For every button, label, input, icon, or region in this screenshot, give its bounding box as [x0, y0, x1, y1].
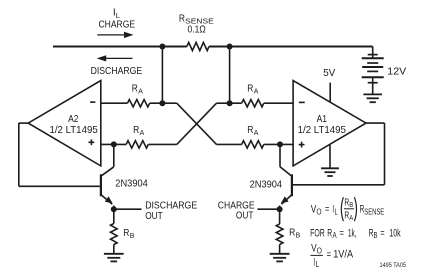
wire: left sense drop	[161, 47, 163, 104]
svg-text:CHARGE: CHARGE	[99, 20, 136, 31]
ground: A1	[321, 168, 339, 176]
svg-text:L: L	[116, 11, 120, 20]
formula FOR RA = 1k, RB = 10k	[310, 227, 401, 240]
resistor RA bottom-left	[126, 141, 148, 148]
wire: A2 output stub	[19, 122, 28, 124]
transistor Q1 2N3904	[101, 167, 114, 204]
svg-text:SENSE: SENSE	[364, 207, 384, 216]
wire: Q2 base lead	[293, 184, 385, 186]
svg-text:R: R	[289, 227, 295, 238]
svg-text:B: B	[296, 231, 301, 240]
wire: bottom-right crossover to RA	[217, 143, 242, 145]
resistor RSENSE	[187, 42, 209, 50]
resistor RA top-right	[242, 100, 264, 107]
svg-text:O: O	[316, 207, 321, 216]
svg-text:OUT: OUT	[236, 210, 254, 221]
pin: A1 V+ 5V	[329, 83, 331, 103]
svg-text:R: R	[247, 84, 253, 95]
svg-text:A2: A2	[68, 114, 79, 125]
svg-text:10k: 10k	[389, 227, 401, 239]
junction: plus line / Q2 collector	[277, 141, 283, 147]
svg-text:A: A	[140, 128, 145, 137]
junction: top rail right node	[227, 44, 233, 50]
wire: A2 plus input lead	[101, 143, 126, 145]
A2 plus sign	[89, 141, 95, 143]
wire: Q2 collector up	[279, 144, 281, 166]
A2 minus sign	[90, 101, 95, 103]
resistor RB left	[111, 224, 118, 245]
svg-text:1k,: 1k,	[348, 227, 357, 239]
wire: top rail right segment (RSENSE to battery)	[209, 46, 373, 48]
svg-text:DISCHARGE: DISCHARGE	[91, 66, 143, 77]
wire: Q1 collector up	[113, 144, 115, 166]
wire: charge out stub	[257, 208, 279, 210]
wire: top-left node to crossover	[150, 102, 177, 104]
svg-text:A: A	[333, 231, 338, 240]
wire: crossover diagonal down	[177, 103, 217, 144]
formula VO = IL (RB/RA) RSENSE	[311, 197, 384, 222]
svg-text:A: A	[138, 86, 143, 95]
svg-text:5V: 5V	[323, 68, 335, 79]
svg-text:R: R	[179, 14, 185, 25]
svg-text:2N3904: 2N3904	[250, 179, 283, 190]
svg-text:B: B	[130, 231, 135, 240]
wire: A1 output down	[384, 123, 386, 185]
ground: RB right	[270, 254, 290, 262]
svg-text:OUT: OUT	[145, 211, 163, 222]
wire: A2 output down	[18, 123, 20, 186]
wire: Q2 emitter down	[279, 206, 281, 210]
formula VO/IL = 1V/A	[310, 243, 353, 270]
svg-text:A: A	[254, 86, 259, 95]
svg-text:R: R	[132, 84, 138, 95]
svg-text:R: R	[123, 228, 129, 239]
wire: RA to A1 minus input	[264, 102, 293, 104]
wire: discharge out stub	[114, 208, 142, 210]
pin: A1 V- to ground	[329, 145, 331, 168]
svg-text:A1: A1	[317, 114, 328, 125]
wire: crossover diagonal up	[177, 103, 217, 144]
ground: battery	[363, 94, 382, 102]
wire: bottom-left to crossover	[148, 143, 177, 145]
svg-text:A: A	[349, 213, 353, 222]
op-amp A1	[293, 81, 366, 166]
svg-text:12V: 12V	[387, 67, 406, 78]
svg-text:1495 TA05: 1495 TA05	[380, 262, 407, 269]
wire: top rail left segment (load to RSENSE)	[53, 46, 187, 48]
svg-text:0.1Ω: 0.1Ω	[188, 24, 206, 35]
svg-text:=: =	[380, 227, 384, 239]
junction: plus line / Q1 collector	[111, 141, 117, 147]
svg-text:1/2 LT1495: 1/2 LT1495	[298, 125, 346, 136]
wire: RB right to ground	[279, 245, 281, 254]
junction: top rail left node	[159, 44, 165, 50]
wire: RA to A1 plus input	[264, 143, 293, 145]
junction: discharge out node	[111, 206, 117, 212]
svg-text:1V/A: 1V/A	[333, 249, 353, 261]
svg-text:B: B	[374, 231, 378, 240]
ground: RB left	[104, 254, 124, 262]
svg-text:R: R	[247, 125, 253, 136]
resistor RA top-left	[128, 100, 150, 107]
svg-text:R: R	[133, 125, 139, 136]
wire: right sense drop	[229, 47, 231, 104]
svg-text:O: O	[317, 246, 322, 255]
svg-text:L: L	[335, 207, 339, 216]
svg-text:L: L	[316, 260, 320, 269]
wire: Q1 emitter down	[113, 206, 115, 210]
svg-text:R: R	[327, 227, 332, 239]
resistor RA bottom-right	[242, 141, 264, 148]
svg-text:B: B	[349, 200, 353, 209]
transistor Q2 2N3904	[280, 167, 292, 204]
junction: minus line / left sense drop	[159, 100, 165, 106]
junction: minus line / right sense drop	[227, 100, 233, 106]
wire: node to RB right	[279, 209, 281, 224]
svg-text:2N3904: 2N3904	[115, 179, 148, 190]
svg-text:=: =	[327, 249, 331, 261]
svg-text:=: =	[340, 227, 344, 239]
svg-text:FOR: FOR	[310, 227, 325, 239]
wire: node to RB left	[113, 209, 115, 223]
wire: top-right crossover to RA	[217, 102, 242, 104]
A1 plus sign	[299, 144, 305, 146]
junction: charge out node	[277, 206, 283, 212]
svg-text:=: =	[325, 204, 329, 216]
svg-text:1/2 LT1495: 1/2 LT1495	[49, 125, 97, 136]
charge arrow	[97, 34, 125, 36]
A1 minus sign	[299, 101, 305, 103]
wire: A2 minus input lead	[101, 102, 128, 104]
wire: Q1 base lead	[19, 185, 100, 187]
discharge arrow	[106, 57, 133, 59]
battery 12V	[362, 47, 384, 95]
wire: A1 output stub	[366, 122, 385, 124]
wire: RB left to ground	[113, 245, 115, 254]
op-amp A2	[28, 81, 101, 166]
resistor RB right	[276, 224, 283, 245]
svg-text:A: A	[254, 128, 259, 137]
